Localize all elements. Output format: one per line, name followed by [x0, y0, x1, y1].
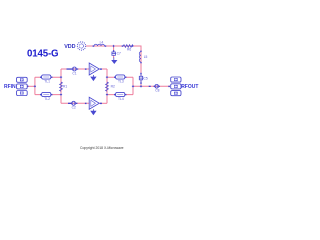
- svg-text:TL2: TL2: [44, 97, 50, 101]
- svg-text:RFIN: RFIN: [4, 84, 16, 90]
- svg-text:0145-G: 0145-G: [27, 48, 58, 59]
- svg-text:C5: C5: [144, 77, 148, 81]
- svg-text:TL3: TL3: [118, 80, 124, 84]
- svg-text:L4: L4: [100, 41, 104, 45]
- svg-text:TL4: TL4: [118, 97, 124, 101]
- svg-text:C2: C2: [72, 106, 76, 110]
- svg-text:R1: R1: [63, 84, 67, 88]
- svg-text:C1: C1: [72, 72, 76, 76]
- svg-text:RFOUT: RFOUT: [181, 84, 198, 90]
- svg-text:VDD: VDD: [64, 44, 75, 50]
- svg-text:Copyright 2018 X-Microwave: Copyright 2018 X-Microwave: [80, 146, 124, 150]
- svg-text:TL1: TL1: [44, 80, 50, 84]
- svg-text:L5: L5: [144, 55, 148, 59]
- svg-text:C7: C7: [117, 52, 121, 56]
- svg-text:R6: R6: [127, 47, 131, 51]
- svg-text:C8: C8: [155, 88, 159, 92]
- svg-text:R2: R2: [111, 84, 115, 88]
